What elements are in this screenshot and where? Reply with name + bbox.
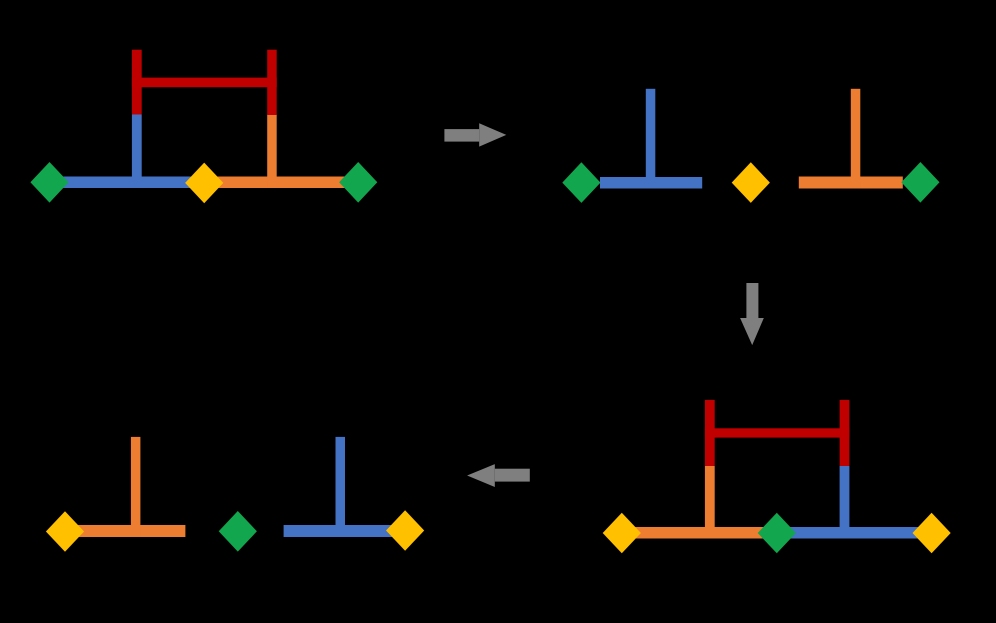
panel 1: orange strand vertical arm [267, 115, 277, 189]
panel 4: red duplex crossbar [705, 428, 850, 437]
arrow down head [740, 318, 764, 345]
panel 4: blue strand vertical arm [840, 466, 850, 538]
panel 1: orange strand horizontal bar [204, 177, 358, 189]
panel 3: green diamond lone [219, 511, 257, 552]
panel 1: red duplex right vertical [267, 50, 277, 115]
panel 2: yellow diamond lone [732, 162, 770, 203]
panel 4: yellow diamond left [603, 513, 641, 554]
panel 1: red duplex crossbar [132, 78, 277, 88]
panel 2: orange strand horizontal bar [799, 177, 903, 189]
panel 3: blue strand horizontal bar [284, 525, 396, 537]
arrow right (panel 1 to panel 2) tail [444, 129, 479, 142]
panel 3: yellow diamond left [46, 511, 84, 552]
panel 3: yellow diamond right [386, 510, 424, 551]
panel 4: red duplex left vertical [705, 400, 715, 466]
panel 1: green diamond left [30, 162, 68, 203]
arrow left (panel 4 to panel 3) tail [495, 469, 530, 482]
panel 2: green diamond left [562, 162, 600, 203]
arrow left head [467, 464, 495, 487]
panel 4: orange strand vertical arm [705, 466, 715, 538]
panel 1: green diamond right [339, 162, 377, 203]
panel 4: blue strand horizontal bar [777, 527, 932, 539]
panel 4: orange strand horizontal bar [622, 527, 777, 539]
panel 3: orange strand horizontal bar [65, 525, 185, 537]
panel 2: green diamond right [901, 162, 939, 203]
panel 2: blue strand vertical arm [646, 89, 656, 189]
panel 3: blue strand vertical arm [336, 437, 346, 537]
arrow right head [479, 123, 506, 146]
panel 2: blue strand horizontal bar [600, 177, 702, 189]
panel 1: blue strand horizontal bar [50, 177, 205, 189]
panel 4: green diamond center [758, 513, 796, 554]
panel 4: yellow diamond right [913, 513, 951, 554]
panel 1: yellow diamond center [185, 163, 223, 204]
panel 2: orange strand vertical arm [851, 89, 861, 189]
panel 1: blue strand vertical arm [132, 115, 142, 189]
panel 1: red duplex left vertical [132, 50, 142, 115]
arrow down (panel 2 to panel 4) tail [746, 283, 758, 318]
panel 4: red duplex right vertical [840, 400, 850, 466]
panel 3: orange strand vertical arm [131, 437, 141, 537]
